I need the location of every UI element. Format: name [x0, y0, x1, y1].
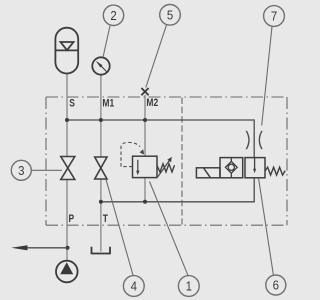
svg-text:P: P [69, 213, 75, 225]
svg-text:1: 1 [186, 279, 193, 294]
svg-text:S: S [69, 98, 75, 110]
svg-text:3: 3 [18, 163, 25, 178]
svg-text:T: T [103, 213, 108, 225]
svg-text:5: 5 [167, 8, 174, 23]
svg-text:M1: M1 [102, 98, 114, 110]
svg-text:6: 6 [273, 278, 280, 293]
svg-text:M2: M2 [146, 97, 158, 109]
svg-text:2: 2 [110, 8, 117, 23]
svg-text:7: 7 [271, 9, 278, 24]
svg-text:4: 4 [131, 279, 138, 294]
